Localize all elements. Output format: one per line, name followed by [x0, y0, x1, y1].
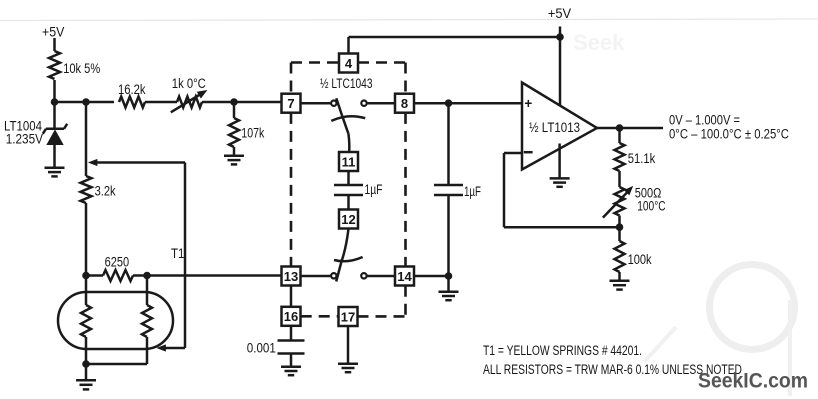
- wire: pin13 to pin16: [290, 286, 293, 307]
- svg-text:17: 17: [341, 309, 355, 324]
- svg-text:T1: T1: [171, 246, 185, 261]
- ground (thermistor): [76, 364, 96, 389]
- pin 7 box: [282, 94, 301, 113]
- svg-text:3.2k: 3.2k: [95, 184, 116, 199]
- wire: [145, 101, 177, 104]
- svg-text:51.1k: 51.1k: [628, 151, 656, 166]
- power +5V (op-amp): [548, 6, 571, 106]
- resistor 6250: [86, 254, 147, 281]
- svg-text:4: 4: [345, 56, 353, 71]
- thermistor network T1 (YSI 44201) oval: [58, 276, 173, 365]
- svg-text:1µF: 1µF: [365, 182, 383, 197]
- node: pin14 junction: [445, 273, 452, 280]
- pin 14 box: [395, 267, 414, 286]
- node: pin7 input junction: [231, 99, 238, 106]
- svg-text:1.235V: 1.235V: [6, 132, 43, 147]
- svg-text:100°C: 100°C: [637, 199, 666, 214]
- svg-text:13: 13: [284, 269, 298, 284]
- ground (pin14 node): [439, 276, 459, 300]
- wire: feedback to inverting input: [504, 153, 620, 227]
- note text: [483, 343, 742, 377]
- node: 6250 right junction: [144, 272, 151, 279]
- svg-text:+5V: +5V: [42, 24, 64, 39]
- scan artifact line: [0, 19, 818, 21]
- svg-text:8: 8: [401, 96, 408, 111]
- wire: op-amp output: [597, 127, 663, 130]
- svg-text:T1 = YELLOW SPRINGS # 44201.: T1 = YELLOW SPRINGS # 44201.: [483, 343, 642, 358]
- svg-text:½ LTC1043: ½ LTC1043: [320, 76, 373, 91]
- svg-text:12: 12: [341, 212, 355, 227]
- wire: [53, 38, 56, 51]
- resistor 10k 5%: [49, 51, 100, 79]
- wire: pin8 to op-amp: [414, 102, 521, 105]
- node: output junction: [616, 125, 623, 132]
- T1 callout arrow: [89, 159, 185, 351]
- capacitor 0.001: [247, 326, 305, 367]
- wire: pin4 to +5V rail: [349, 37, 561, 54]
- resistor 51.1k: [615, 128, 656, 187]
- ground (under LT1004): [45, 168, 65, 177]
- svg-text:Seek: Seek: [573, 30, 625, 55]
- svg-text:0V – 1.000V =: 0V – 1.000V =: [669, 113, 740, 128]
- variable resistor 1k 0°C: [171, 76, 207, 112]
- zener diode LT1004 1.235V: [4, 102, 67, 167]
- wire: [202, 101, 282, 104]
- node: reference node junction: [51, 99, 58, 106]
- pin 4 box: [339, 54, 358, 73]
- pin 11 box: [339, 152, 358, 171]
- svg-text:6250: 6250: [105, 254, 130, 269]
- wire: [618, 216, 621, 242]
- svg-text:100k: 100k: [628, 252, 652, 267]
- capacitor 1uF (hold): [434, 103, 481, 276]
- svg-text:+: +: [524, 96, 532, 111]
- svg-text:0°C – 100.0°C ± 0.25°C: 0°C – 100.0°C ± 0.25°C: [669, 127, 789, 142]
- node: op-amp + input junction: [445, 100, 452, 107]
- capacitor 1uF (flying): [334, 171, 383, 210]
- ground (100k): [610, 281, 630, 290]
- wire: pin14 to node: [414, 275, 449, 278]
- wire: to pin 13: [147, 274, 282, 277]
- svg-text:1µF: 1µF: [464, 184, 481, 199]
- node: feedback junction: [616, 224, 623, 231]
- power rail +5V (left): [42, 24, 64, 51]
- pin 17 box: [339, 307, 358, 326]
- wire: [53, 80, 56, 102]
- node: 6250 left junction: [83, 272, 90, 279]
- switch S1 (pins 7-8-11): [301, 98, 396, 152]
- svg-text:+5V: +5V: [548, 6, 571, 21]
- svg-text:107k: 107k: [241, 125, 264, 140]
- svg-text:1k 0°C: 1k 0°C: [172, 76, 206, 91]
- ground (0.001 cap): [281, 367, 301, 375]
- resistor 3.2k: [81, 102, 116, 276]
- svg-text:11: 11: [342, 154, 356, 169]
- variable resistor 500ohm 100C: [603, 186, 666, 218]
- pin 16 box: [282, 307, 301, 326]
- pin 12 box: [339, 210, 358, 229]
- svg-text:16: 16: [284, 309, 298, 324]
- svg-text:16.2k: 16.2k: [118, 82, 146, 97]
- svg-text:0.001: 0.001: [247, 341, 276, 356]
- svg-text:14: 14: [397, 269, 412, 284]
- op-amp U1 half LT1013: [522, 83, 597, 170]
- svg-text:10k 5%: 10k 5%: [63, 61, 100, 76]
- switch S2 (pins 13-14-12): [301, 229, 396, 282]
- svg-text:SeekIC.com: SeekIC.com: [698, 370, 808, 393]
- output annotation: [669, 113, 789, 142]
- pin 13 box: [282, 267, 301, 286]
- resistor 100k: [615, 241, 652, 281]
- LTC1043 dashed outline: [291, 63, 406, 317]
- wire: main rail: [55, 101, 115, 104]
- resistor 107k: [229, 102, 264, 156]
- node: 3.2k branch junction: [83, 99, 90, 106]
- resistor 16.2k: [118, 82, 146, 108]
- ground (pin 17): [338, 326, 358, 372]
- svg-text:½ LT1013: ½ LT1013: [529, 120, 580, 135]
- ground (op-amp): [550, 144, 570, 187]
- node: thermistor common: [83, 361, 90, 368]
- pin 8 box: [395, 94, 414, 113]
- ground (under 107k): [224, 156, 244, 165]
- watermark circle: [573, 30, 795, 396]
- node: +5V junction: [557, 34, 564, 41]
- svg-text:7: 7: [287, 96, 294, 111]
